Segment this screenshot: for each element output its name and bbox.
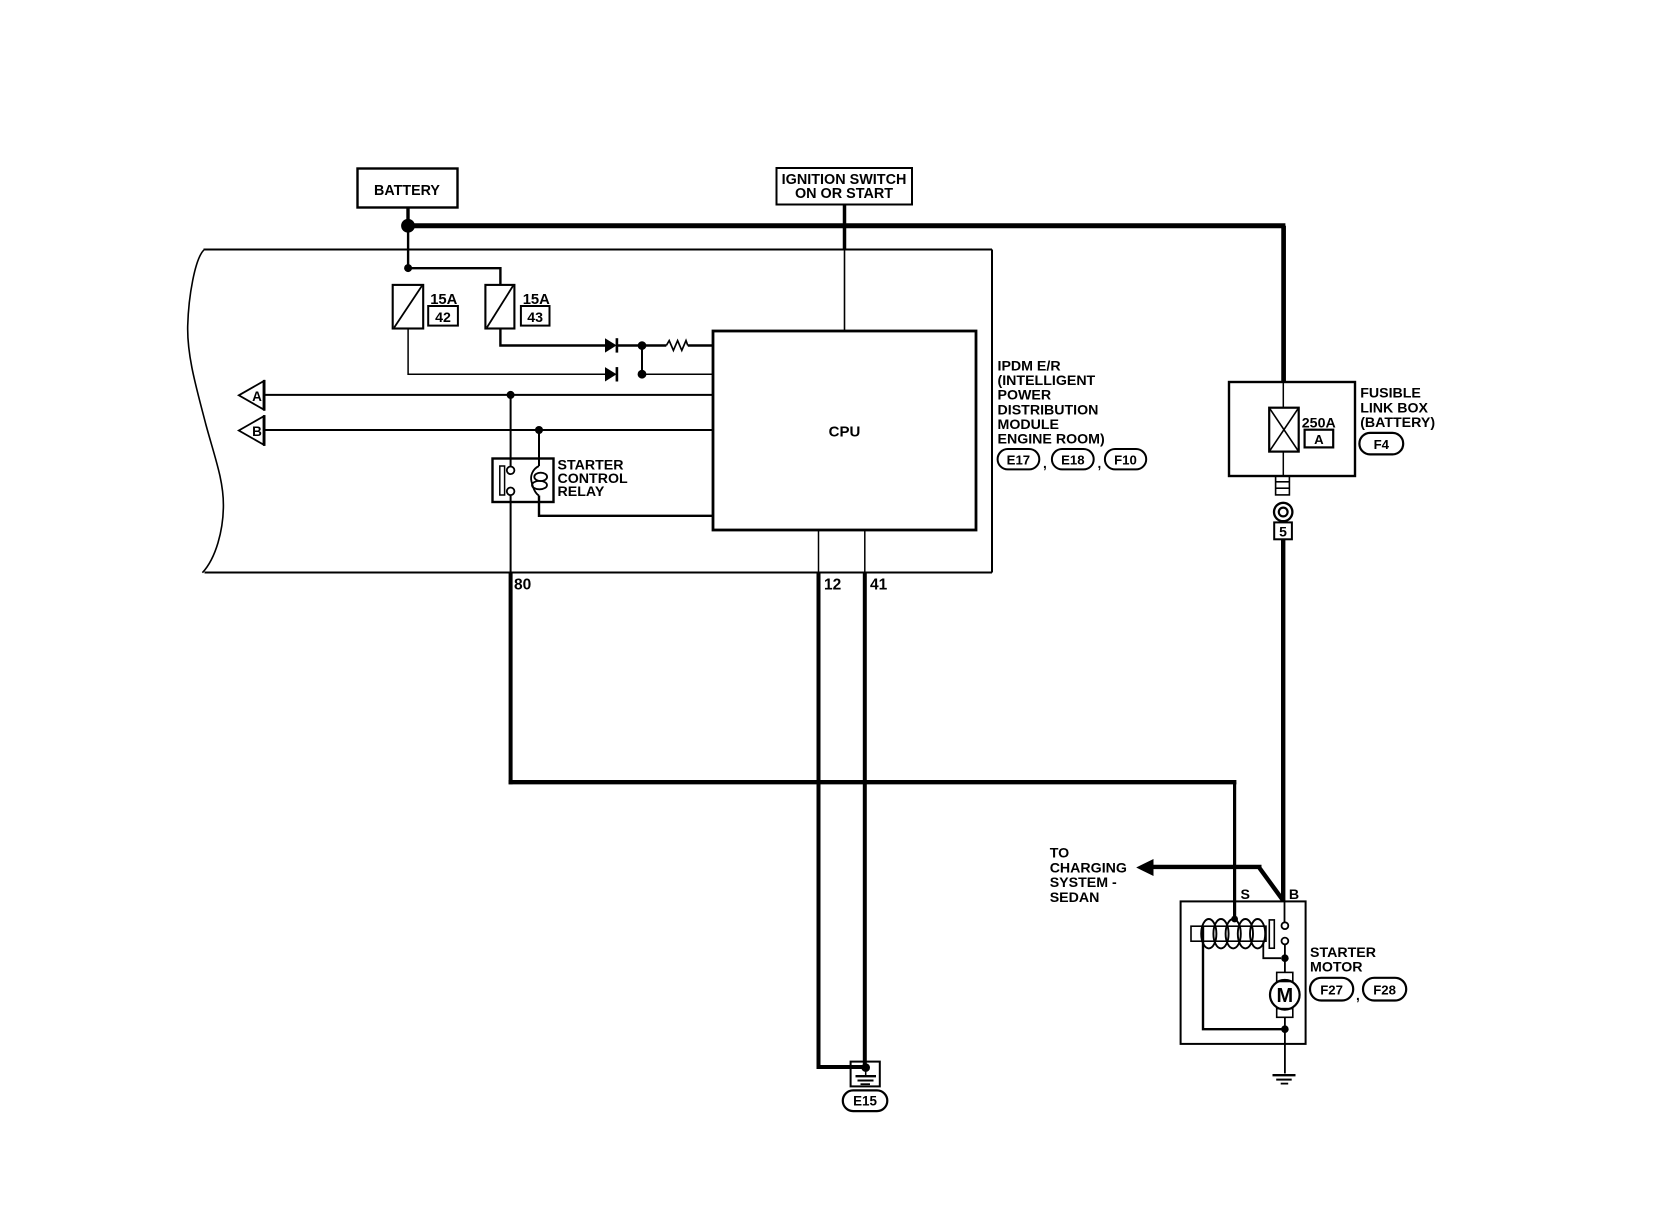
label A box (1305, 430, 1334, 448)
label to charging system sedan (1050, 845, 1127, 906)
wire inside fusible box top (1282, 382, 1284, 408)
IPDM E/R outer box right edge (991, 250, 993, 573)
wire contact to motor (1284, 944, 1286, 972)
wire inside fusible box bottom (1282, 452, 1284, 476)
relay contact bar (500, 466, 505, 495)
svg-text:,: , (1356, 988, 1360, 1003)
diode D1 (upper) (605, 338, 618, 352)
svg-text:SEDAN: SEDAN (1050, 890, 1100, 906)
wire ignition drop thick (843, 205, 847, 250)
svg-text:42: 42 (435, 310, 451, 326)
relay contact circle top (507, 467, 515, 475)
connector oval E17 (998, 449, 1040, 469)
wire battery stub (406, 208, 409, 227)
wire node to resistor (642, 344, 666, 346)
svg-text:E17: E17 (1007, 452, 1030, 467)
svg-text:B: B (252, 424, 262, 439)
grommet ring (1274, 503, 1292, 521)
label 5 box (1274, 522, 1292, 539)
node diode upper (638, 341, 647, 350)
motor M1 (1270, 972, 1300, 1017)
wire battery bus (408, 223, 1285, 228)
wire relay contact down (510, 495, 512, 572)
svg-text:E18: E18 (1061, 452, 1084, 467)
wire charging branch diagonal (1260, 868, 1284, 901)
wire fusible to starter B (1281, 539, 1285, 902)
fusible link element 250A (1269, 408, 1299, 452)
svg-text:43: 43 (527, 310, 543, 326)
wire lower diode to CPU (642, 373, 714, 375)
wire pin 80 run to starter S (509, 780, 1237, 784)
IPDM E/R outer box bottom edge (205, 572, 993, 574)
connector arrow A (239, 380, 264, 411)
node fuse branch (404, 264, 412, 272)
node B junction (535, 426, 543, 434)
resistor R1 (666, 341, 688, 351)
fusible link box (1229, 382, 1355, 476)
solenoid plunger plate (1269, 920, 1274, 948)
svg-text:ON OR START: ON OR START (795, 186, 893, 202)
wire CPU pin 41 thin (864, 530, 866, 573)
svg-text:TO: TO (1050, 845, 1069, 861)
wire branch to fuse 43 (408, 268, 500, 285)
wire D1 to node (618, 344, 642, 346)
svg-text:FUSIBLE: FUSIBLE (1360, 385, 1421, 401)
IPDM E/R outer box top edge (204, 249, 993, 251)
CPU box U1 (713, 331, 976, 530)
svg-text:E15: E15 (853, 1093, 877, 1108)
svg-text:IPDM E/R: IPDM E/R (998, 359, 1061, 375)
ground starter motor (1273, 1075, 1296, 1083)
svg-text:5: 5 (1279, 524, 1287, 540)
svg-text:80: 80 (514, 577, 531, 594)
arrow to charging system (1136, 859, 1153, 876)
relay coil (531, 466, 547, 496)
wire plate branch (1263, 941, 1281, 958)
svg-text:F4: F4 (1374, 437, 1390, 452)
wire coil return (1203, 926, 1285, 1029)
svg-text:MODULE: MODULE (998, 417, 1059, 433)
svg-text:41: 41 (870, 577, 888, 594)
wire pin 12 thick (819, 573, 865, 1068)
battery box (358, 169, 458, 208)
wire ignition drop thin (844, 250, 846, 332)
wire resistor to CPU (688, 344, 714, 346)
wire battery branch into IPDM (407, 226, 409, 268)
svg-text:MOTOR: MOTOR (1310, 959, 1363, 975)
svg-text:(INTELLIGENT: (INTELLIGENT (998, 373, 1096, 389)
svg-text:BATTERY: BATTERY (374, 183, 440, 199)
connector oval E15 (843, 1090, 888, 1111)
relay contact circle bottom (507, 488, 515, 496)
svg-text:,: , (1043, 456, 1047, 471)
svg-text:A: A (1314, 432, 1324, 447)
svg-text:M: M (1276, 985, 1293, 1007)
starter control relay box (493, 459, 554, 503)
wire diode link (641, 346, 643, 375)
svg-text:,: , (1098, 456, 1102, 471)
wire drop to fusible link box (1281, 226, 1286, 382)
node S on coil (1231, 916, 1238, 923)
wire pin 41 thick (863, 573, 867, 1067)
wire fuse 43 output (500, 329, 605, 346)
solenoid coil loops (1201, 919, 1265, 948)
node contact junction (1281, 954, 1289, 962)
connector oval F27 (1310, 978, 1353, 1001)
wire pin 80 thick (509, 573, 513, 785)
wire A to relay contact (510, 395, 512, 467)
label starter control relay (558, 458, 628, 500)
wire S drop (1233, 782, 1236, 920)
wire A line (264, 394, 714, 396)
svg-text:LINK BOX: LINK BOX (1360, 400, 1428, 416)
svg-text:RELAY: RELAY (558, 484, 605, 500)
ignition switch box (777, 168, 913, 205)
wire motor bottom (1284, 1017, 1286, 1073)
svg-text:ENGINE ROOM): ENGINE ROOM) (998, 432, 1105, 448)
connector arrow B (239, 415, 264, 446)
IPDM E/R outer box torn left edge (188, 250, 224, 573)
svg-text:CPU: CPU (829, 424, 861, 441)
svg-text:A: A (252, 389, 262, 404)
svg-text:POWER: POWER (998, 388, 1052, 404)
svg-text:(BATTERY): (BATTERY) (1360, 415, 1435, 431)
node A junction (507, 391, 515, 399)
connector oval E18 (1052, 449, 1094, 469)
node diode lower (638, 370, 647, 379)
fuse 42 (15A) (393, 285, 424, 329)
wire fuse 42 output (408, 329, 605, 375)
starter contact circle top (1282, 922, 1289, 929)
label starter motor (1310, 945, 1376, 975)
wire CPU pin 12 thin (818, 530, 820, 573)
connector block under fusible box (1276, 476, 1290, 495)
diode D2 (lower) (605, 367, 618, 381)
ground E15 box (851, 1062, 880, 1087)
label 42 box (428, 306, 458, 326)
connector oval F28 (1363, 978, 1406, 1001)
wire relay coil to CPU (539, 496, 714, 516)
starter motor box (1181, 901, 1306, 1044)
svg-text:DISTRIBUTION: DISTRIBUTION (998, 402, 1099, 418)
wire charging branch horizontal (1153, 865, 1262, 869)
svg-text:F28: F28 (1373, 983, 1396, 998)
node motor bottom junction (1281, 1025, 1289, 1033)
svg-text:SYSTEM -: SYSTEM - (1050, 875, 1117, 891)
connector oval F10 (1105, 449, 1146, 469)
node battery junction (401, 219, 415, 233)
svg-text:12: 12 (824, 577, 841, 594)
svg-text:F27: F27 (1320, 983, 1343, 998)
label 43 box (521, 306, 550, 326)
connector oval F4 (1359, 433, 1403, 455)
label fusible link box (1360, 385, 1435, 431)
starter contact circle bottom (1282, 938, 1289, 945)
wire B to relay coil (538, 430, 540, 466)
solenoid core (1191, 926, 1266, 941)
wire B line (264, 429, 714, 431)
fuse 43 (15A) (485, 285, 514, 329)
svg-text:F10: F10 (1114, 452, 1137, 467)
svg-text:CHARGING: CHARGING (1050, 860, 1127, 876)
label IPDM E/R text block (998, 359, 1105, 448)
